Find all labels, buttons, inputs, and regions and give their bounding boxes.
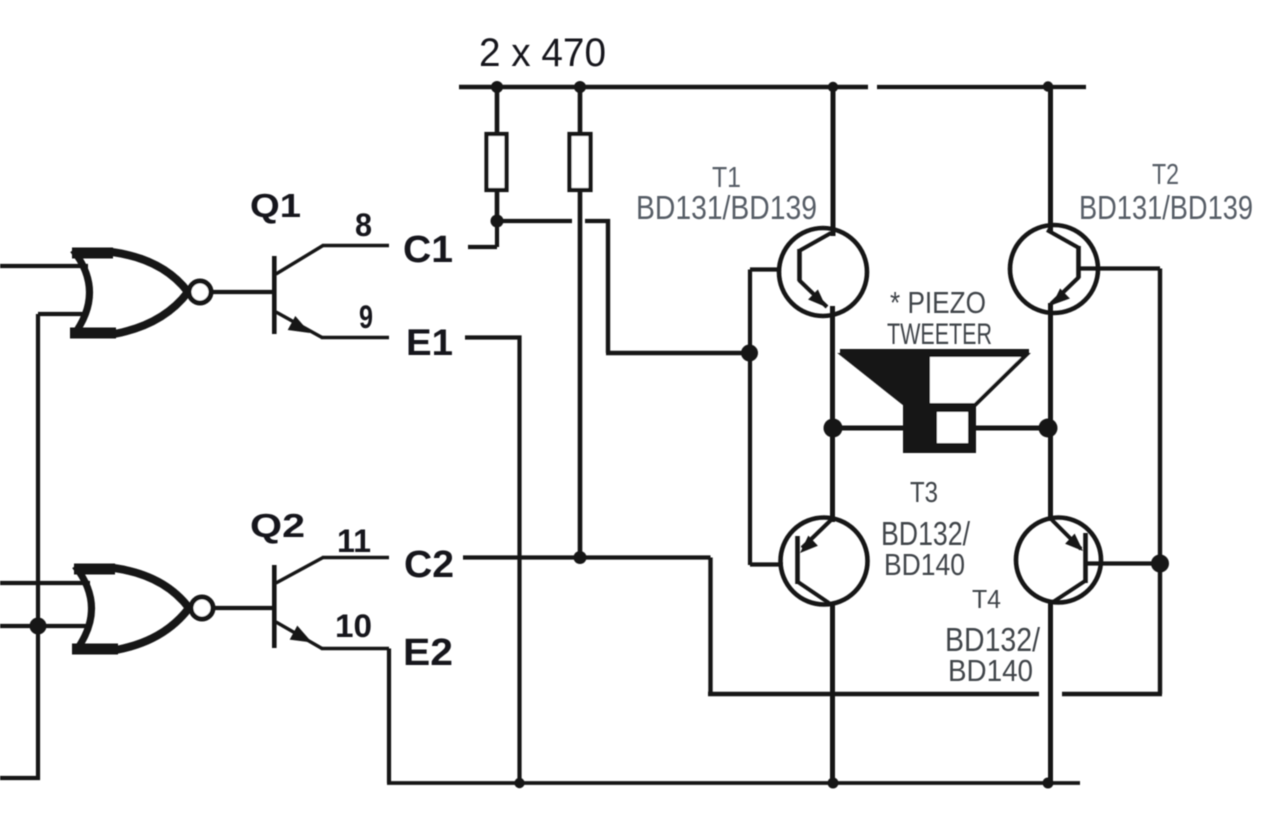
node junction dot rail/R2: [574, 81, 586, 93]
label T3: [910, 477, 938, 509]
label BD140 (T4): [948, 653, 1033, 688]
value label "2 x 470" for resistors: [479, 31, 606, 75]
wire T1 base lead: [750, 267, 779, 271]
svg-text:10: 10: [335, 608, 372, 644]
wire C2 net bottom horizontal (gap at T4 collector): [708, 692, 1162, 697]
node label E2: [403, 632, 453, 674]
svg-text:BD140: BD140: [948, 653, 1033, 688]
label * PIEZO: [890, 285, 986, 320]
svg-text:* PIEZO: * PIEZO: [890, 285, 986, 320]
svg-text:11: 11: [337, 523, 371, 559]
wire T3 base lead: [750, 562, 783, 566]
svg-text:8: 8: [355, 207, 372, 243]
NOR gate G1 output inversion bubble: [189, 281, 211, 303]
wire bottom rail: [387, 781, 1080, 785]
node junction dot rail/T2 collector: [1043, 81, 1053, 91]
wire R2 top lead: [578, 87, 583, 134]
label TWEETER: [887, 318, 992, 351]
wire bottom-left return: down x=38 then left to edge: [0, 626, 38, 778]
wire G2 input A: [0, 581, 90, 585]
resistor R1 (470 ohm): [487, 134, 507, 190]
wire Q1 collector lead: [322, 244, 389, 248]
wire speaker horizontal: [833, 426, 1048, 431]
transistor T1 BD131/BD139 (NPN): [779, 89, 867, 428]
wire G2 output to Q2 base: [213, 606, 272, 610]
wire G1 input B: [38, 312, 87, 316]
svg-text:BD131/BD139: BD131/BD139: [636, 189, 817, 226]
transistor T4 BD132/BD140 (PNP, mirrored): [1016, 428, 1101, 783]
node junction dot R2/C2: [574, 551, 587, 564]
label T2: [1152, 159, 1179, 191]
svg-text:BD131/BD139: BD131/BD139: [1079, 189, 1253, 226]
wire T1/T3 base rail vertical x=750: [748, 270, 752, 566]
label BD131/BD139 (T2): [1079, 189, 1253, 226]
node label C2: [404, 544, 454, 586]
svg-text:T2: T2: [1152, 159, 1179, 191]
label T1: [712, 162, 741, 194]
svg-text:Q1: Q1: [250, 187, 301, 224]
wire C2 net corner down x=710.5: [708, 558, 712, 695]
NOR gate G1 body: [70, 250, 188, 336]
label BD132/ (T3): [881, 515, 971, 552]
wire R1 bottom lead to node: [495, 190, 500, 221]
pin number 9 (Q1 emitter): [359, 299, 373, 335]
wire R1 top lead: [495, 87, 500, 134]
wire R2 bottom lead down to C2 net: [578, 190, 583, 558]
wire cross-couple vertical x=38 G1 input B to G2 input B: [36, 314, 40, 626]
svg-text:E1: E1: [406, 322, 453, 363]
wire G1 output to Q1 base: [211, 290, 272, 294]
svg-text:9: 9: [359, 299, 373, 335]
wire top supply rail left segment: [459, 85, 868, 90]
wire T2/T4 base rail vertical x=1160: [1158, 269, 1162, 695]
node junction dot bottom rail / T4 collector: [1043, 778, 1054, 789]
node junction dot rail/R1: [491, 81, 503, 93]
label BD140 (T3): [884, 547, 965, 582]
pin number 10 (Q2 emitter): [335, 608, 372, 644]
wire top supply rail right segment: [877, 85, 1086, 89]
pin number 8 (Q1 collector): [355, 207, 372, 243]
node junction dot bottom rail / E1: [514, 778, 524, 788]
piezo tweeter LS1 symbol: [840, 349, 1029, 453]
node junction dot speaker right: [1039, 419, 1058, 438]
svg-text:T3: T3: [910, 477, 938, 509]
wire T4 base lead: [1087, 561, 1160, 565]
wire C2 net horizontal: [463, 555, 711, 559]
wire G2 input B (with left stub to edge): [0, 624, 89, 628]
wire T2 base lead: [1080, 266, 1160, 270]
label T4: [972, 584, 1001, 614]
NOR gate G2 body: [72, 566, 189, 652]
svg-text:C1: C1: [403, 229, 453, 271]
wire C1 net vertical drop x=608: [606, 219, 610, 353]
wire Q2 collector lead: [322, 556, 389, 560]
transistor Q1 (NPN in logic IC): [274, 246, 323, 338]
wire E2 drop to bottom rail: [387, 649, 391, 784]
transistor T2 BD131/BD139 (NPN, mirrored): [1010, 88, 1098, 428]
wire E1 to bottom rail: [465, 338, 520, 784]
label Q2: [250, 507, 305, 544]
node junction dot rail/T1 collector: [828, 82, 838, 92]
svg-text:T4: T4: [972, 584, 1001, 614]
transistor T3 BD132/BD140 (PNP): [781, 428, 868, 783]
pin number 11 (Q2 collector): [337, 523, 371, 559]
wire Q2 emitter lead: [321, 647, 389, 651]
node junction dot R1/C1: [491, 215, 504, 228]
svg-text:Q2: Q2: [250, 507, 305, 544]
label BD132/ (T4): [945, 621, 1041, 658]
node junction dot bottom rail / T3 collector: [828, 778, 839, 789]
node junction dot base rail T1/T3: [741, 345, 758, 362]
wire Q1 emitter lead: [321, 336, 389, 340]
svg-text:C2: C2: [404, 544, 454, 586]
wire C1 stub down from node: [468, 221, 497, 247]
node junction dot G2 input B / cross-couple: [30, 618, 47, 635]
node junction dot T4 base: [1151, 555, 1169, 573]
wire C1 node to T1/T3 base rail (horizontal with crossover gap): [497, 219, 610, 223]
label BD131/BD139 (T1): [636, 189, 817, 226]
resistor R2 (470 ohm): [570, 134, 591, 190]
transistor Q2 (NPN in logic IC): [274, 558, 323, 649]
wire G1 input A: [0, 264, 88, 268]
node junction dot speaker left: [824, 419, 843, 438]
label Q1: [250, 187, 301, 224]
svg-text:BD140: BD140: [884, 547, 965, 582]
svg-text:2 x 470: 2 x 470: [479, 31, 606, 75]
node label E1: [406, 322, 453, 363]
wire C1 net horizontal to base rail: [606, 351, 749, 355]
node label C1: [403, 229, 453, 271]
svg-text:E2: E2: [403, 632, 453, 674]
NOR gate G2 output inversion bubble: [191, 597, 213, 619]
svg-text:TWEETER: TWEETER: [887, 318, 992, 351]
